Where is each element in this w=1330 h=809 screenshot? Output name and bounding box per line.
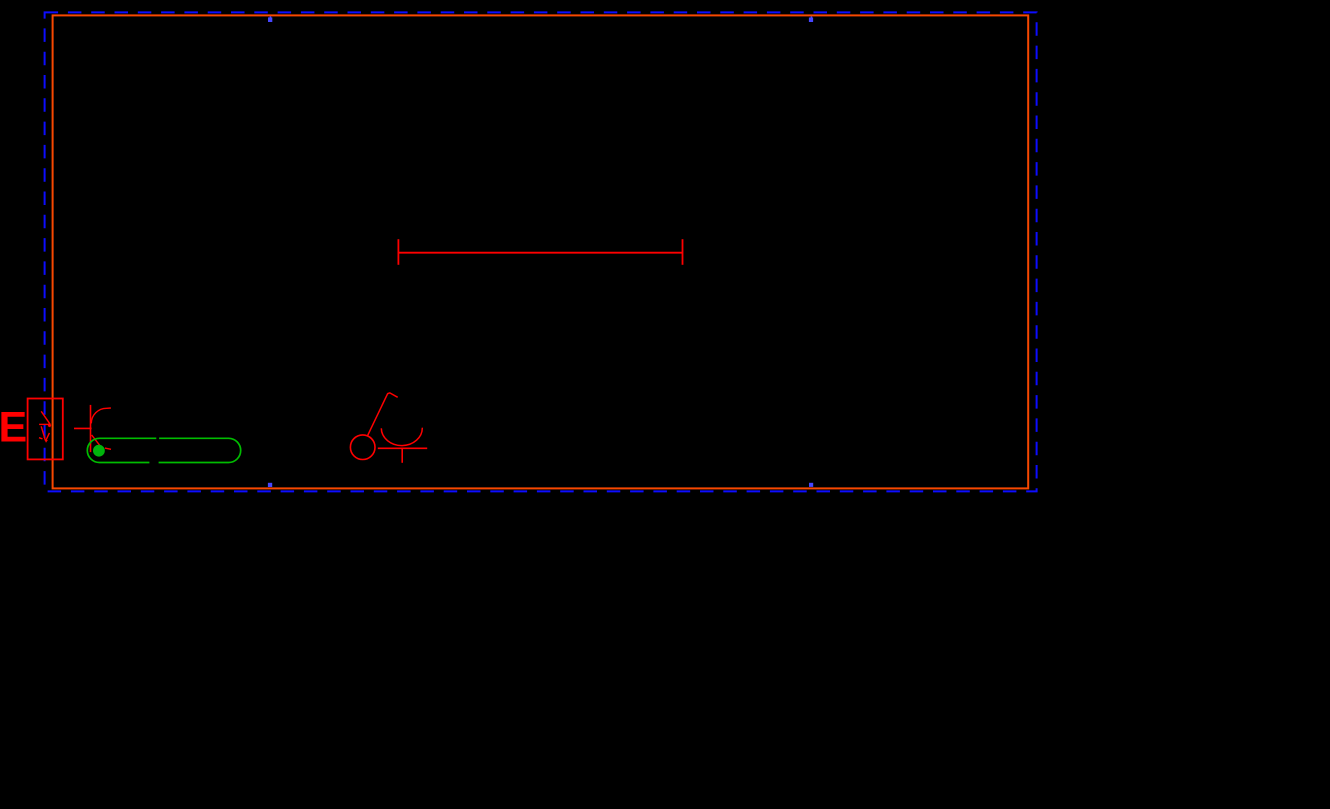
svg-text:E: E [0, 404, 27, 452]
flash arrow 1 (upper zigzag arrow inside box) [39, 411, 51, 424]
selection marquee (blue dashed rectangle) [45, 12, 1037, 491]
wire W1 (red bus line with end ticks) [398, 239, 682, 265]
gap in capsule bottom edge [149, 461, 158, 464]
arc flourish on pin [91, 408, 111, 423]
flash arrow 1 head [48, 423, 52, 427]
component box (photo element rectangle) [28, 399, 63, 460]
selection handle bottom-right [809, 483, 813, 487]
glyph cross vertical [401, 448, 403, 463]
selection handle top-right [809, 16, 813, 22]
pin cross (vertical pin line) [90, 405, 92, 452]
lead to solder dot [92, 435, 100, 445]
glyph bowl arc [381, 428, 422, 446]
selection handle bottom-left [268, 483, 272, 487]
flash arrow 2 head [44, 440, 48, 443]
glyph flag at stem top [388, 393, 398, 397]
glyph cross horizontal [378, 447, 427, 449]
gap in capsule top edge [156, 437, 159, 440]
solder dot (green pad) [93, 445, 105, 457]
flash arrow 2 (lower zigzag arrow inside box) [39, 426, 49, 440]
sheet outline (orange rectangle) [53, 15, 1029, 488]
glyph circle of note symbol [350, 435, 375, 460]
glyph stem of note symbol [368, 393, 388, 435]
net capsule (green rounded track) [87, 438, 240, 462]
stub right of solder dot [105, 448, 111, 449]
pin cross (horizontal pin line) [74, 427, 92, 429]
selection handle top-left [268, 16, 272, 22]
